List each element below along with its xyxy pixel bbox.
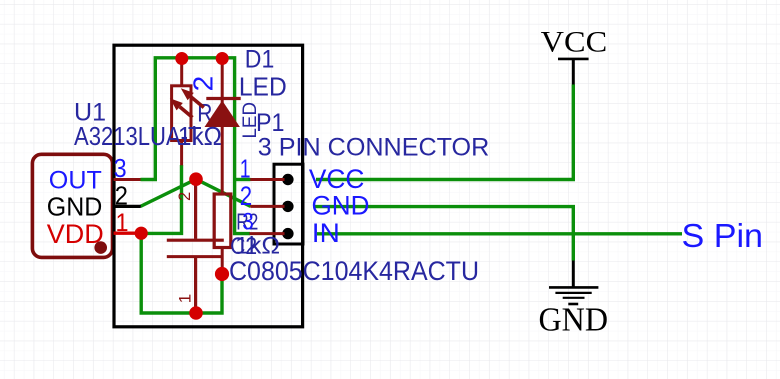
junction dot GND node: [189, 172, 203, 186]
wire OUT net branch to P1 pin1: [235, 178, 251, 181]
wire GND net diagonals: U1 pin2 to junction to P1 pin2: [141, 179, 251, 206]
junction dot C2 bottom: [189, 306, 203, 320]
resistor R2: [214, 194, 231, 274]
svg-text:3 PIN CONNECTOR: 3 PIN CONNECTOR: [258, 134, 490, 162]
svg-text:2: 2: [188, 76, 219, 92]
ground symbol: [549, 261, 598, 305]
svg-text:3: 3: [114, 153, 127, 183]
svg-text:1: 1: [116, 209, 129, 237]
svg-text:1: 1: [240, 156, 251, 184]
junction dot VDD node: [135, 227, 148, 240]
svg-text:LED: LED: [239, 71, 287, 101]
svg-text:C0805C104K4RACTU: C0805C104K4RACTU: [229, 256, 479, 286]
svg-text:2: 2: [115, 181, 128, 211]
svg-text:1: 1: [176, 294, 195, 303]
wire OUT net: U1 pin3 up over top rail and down right side to P1: [141, 58, 251, 234]
big component frame box: [114, 45, 303, 327]
U1 pin 1 stub: [114, 232, 142, 235]
svg-text:2: 2: [176, 192, 194, 201]
U1 origin dot: [94, 241, 107, 254]
svg-text:VDD: VDD: [47, 219, 104, 249]
svg-text:VCC: VCC: [541, 26, 608, 58]
svg-text:3: 3: [242, 209, 254, 236]
svg-text:D1: D1: [245, 45, 274, 73]
capacitor C2: [167, 179, 224, 313]
VCC power symbol: [558, 59, 589, 85]
svg-text:S Pin: S Pin: [682, 217, 764, 254]
junction dot OUT/D1: [216, 52, 229, 65]
svg-text:IN: IN: [312, 218, 340, 248]
wire VCC net right side: [316, 85, 573, 180]
junction dot OUT/R1: [175, 52, 188, 65]
junction dot R2 bottom: [215, 267, 229, 281]
svg-text:1kΩ: 1kΩ: [178, 121, 222, 151]
LED D1: [170, 59, 241, 194]
svg-text:2: 2: [240, 181, 252, 211]
U1 pin 3 stub: [114, 178, 141, 181]
wire VDD net: R1 bottom, U1 pin1, bottom rail to C2/R2: [141, 165, 222, 313]
wire IN net to S Pin: [317, 232, 682, 235]
U1 pin 2 stub: [114, 205, 141, 208]
svg-text:GND: GND: [312, 190, 370, 220]
resistor R1: [172, 59, 191, 165]
connector P1: [250, 164, 304, 244]
svg-text:GND: GND: [539, 302, 609, 339]
wire GND net right side: [315, 207, 573, 261]
svg-text:GND: GND: [47, 193, 103, 221]
IC U1 body (rounded box): [32, 154, 112, 257]
svg-text:OUT: OUT: [49, 167, 102, 195]
